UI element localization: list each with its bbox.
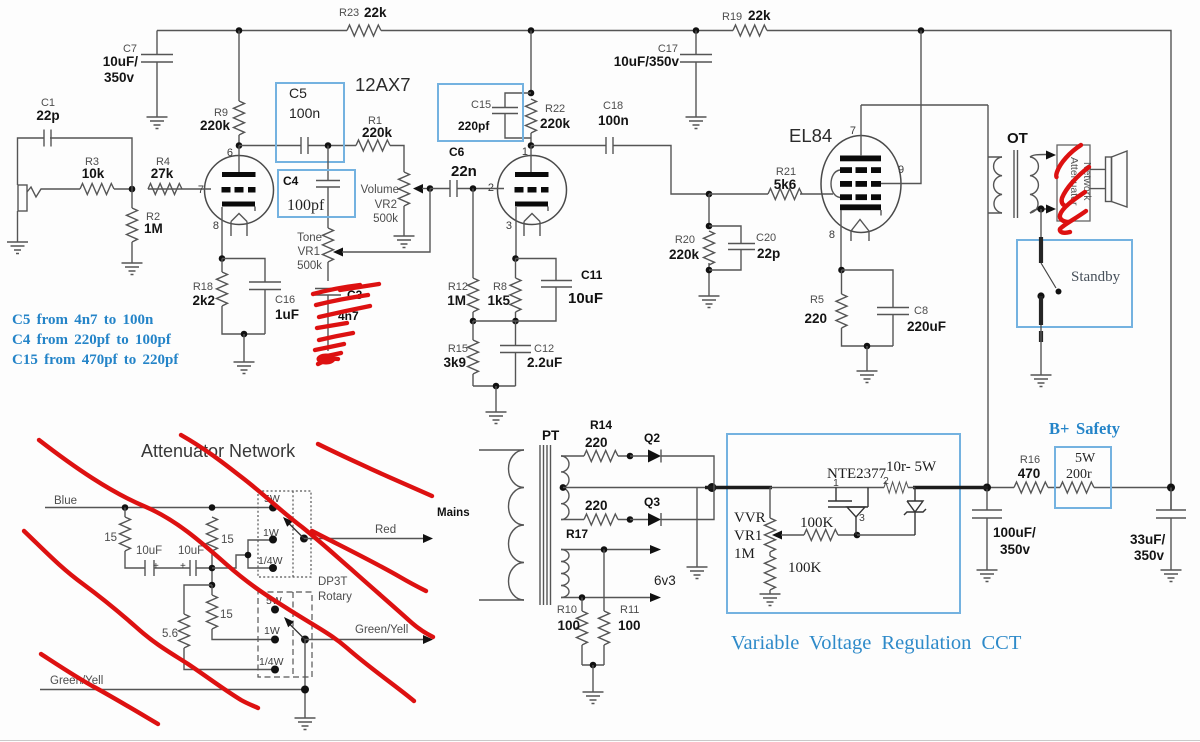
svg-text:33uF/: 33uF/ bbox=[1130, 532, 1166, 547]
svg-text:10uF/350v: 10uF/350v bbox=[614, 54, 680, 69]
svg-text:22n: 22n bbox=[451, 163, 477, 180]
svg-text:6: 6 bbox=[227, 147, 233, 159]
svg-text:R20: R20 bbox=[675, 234, 695, 246]
svg-text:1uF: 1uF bbox=[275, 307, 299, 322]
svg-text:9: 9 bbox=[898, 164, 904, 176]
svg-text:Volume: Volume bbox=[361, 184, 399, 196]
svg-text:2.2uF: 2.2uF bbox=[527, 355, 562, 370]
svg-text:3k9: 3k9 bbox=[443, 355, 466, 370]
svg-text:7: 7 bbox=[850, 125, 856, 137]
svg-text:VR1: VR1 bbox=[734, 528, 762, 544]
svg-text:3: 3 bbox=[506, 220, 512, 232]
svg-text:VR1: VR1 bbox=[298, 246, 320, 258]
svg-text:C4 from 220pf to 100pf: C4 from 220pf to 100pf bbox=[12, 332, 172, 348]
svg-text:5.6: 5.6 bbox=[162, 628, 178, 640]
svg-text:350v: 350v bbox=[1000, 542, 1031, 557]
svg-text:1/4W: 1/4W bbox=[259, 656, 284, 668]
svg-text:2k2: 2k2 bbox=[192, 293, 215, 308]
svg-text:R11: R11 bbox=[620, 604, 639, 616]
svg-text:Tone: Tone bbox=[297, 232, 322, 244]
svg-text:C18: C18 bbox=[603, 100, 623, 112]
svg-text:1: 1 bbox=[833, 477, 839, 489]
svg-text:200r: 200r bbox=[1066, 467, 1092, 482]
svg-text:220: 220 bbox=[585, 435, 608, 450]
svg-text:8: 8 bbox=[213, 220, 219, 232]
svg-text:220k: 220k bbox=[540, 116, 571, 131]
svg-text:C4: C4 bbox=[283, 174, 299, 188]
svg-text:R12: R12 bbox=[448, 281, 468, 293]
svg-text:10r- 5W: 10r- 5W bbox=[886, 459, 937, 475]
svg-text:22p: 22p bbox=[757, 246, 780, 261]
svg-text:10uF: 10uF bbox=[178, 545, 204, 557]
svg-text:DP3T: DP3T bbox=[318, 576, 347, 588]
svg-text:470: 470 bbox=[1018, 466, 1041, 481]
svg-text:220k: 220k bbox=[669, 247, 700, 262]
svg-text:C8: C8 bbox=[914, 305, 928, 317]
svg-text:500k: 500k bbox=[297, 260, 322, 272]
svg-text:C15: C15 bbox=[471, 99, 491, 111]
svg-text:R10: R10 bbox=[557, 604, 577, 616]
svg-text:350v: 350v bbox=[104, 70, 135, 85]
svg-text:15: 15 bbox=[221, 534, 234, 546]
svg-text:100pf: 100pf bbox=[287, 197, 325, 214]
svg-text:+: + bbox=[180, 561, 186, 572]
svg-text:100K: 100K bbox=[788, 560, 822, 576]
svg-text:R18: R18 bbox=[193, 281, 213, 293]
svg-text:5k6: 5k6 bbox=[774, 177, 797, 192]
svg-text:22p: 22p bbox=[36, 108, 59, 123]
svg-text:100uF/: 100uF/ bbox=[993, 525, 1036, 540]
svg-text:Rotary: Rotary bbox=[318, 591, 352, 603]
svg-text:B+ Safety: B+ Safety bbox=[1049, 419, 1121, 438]
svg-text:10uF: 10uF bbox=[568, 290, 603, 307]
svg-text:C5 from 4n7 to 100n: C5 from 4n7 to 100n bbox=[12, 312, 154, 328]
svg-text:100: 100 bbox=[618, 618, 641, 633]
svg-text:100n: 100n bbox=[289, 105, 320, 121]
svg-text:C6: C6 bbox=[449, 145, 465, 159]
svg-text:220uF: 220uF bbox=[907, 319, 946, 334]
svg-text:100K: 100K bbox=[800, 515, 834, 531]
svg-text:22k: 22k bbox=[748, 8, 771, 23]
svg-text:2: 2 bbox=[883, 475, 889, 487]
svg-text:8: 8 bbox=[829, 229, 835, 241]
svg-text:OT: OT bbox=[1007, 130, 1028, 147]
svg-text:C15 from 470pf to 220pf: C15 from 470pf to 220pf bbox=[12, 352, 179, 368]
svg-text:R17: R17 bbox=[566, 527, 588, 541]
svg-text:Q3: Q3 bbox=[644, 495, 660, 509]
svg-text:C12: C12 bbox=[534, 343, 554, 355]
svg-text:R23: R23 bbox=[339, 7, 359, 19]
svg-text:220: 220 bbox=[585, 498, 608, 513]
svg-text:12AX7: 12AX7 bbox=[355, 74, 411, 95]
svg-text:15: 15 bbox=[104, 532, 117, 544]
svg-text:100: 100 bbox=[557, 618, 580, 633]
svg-text:Green/Yell: Green/Yell bbox=[355, 624, 408, 636]
svg-text:Standby: Standby bbox=[1071, 269, 1121, 285]
svg-text:100n: 100n bbox=[598, 113, 629, 128]
svg-text:C11: C11 bbox=[581, 268, 603, 282]
svg-text:VR2: VR2 bbox=[375, 199, 397, 211]
svg-text:500k: 500k bbox=[373, 213, 398, 225]
svg-text:10k: 10k bbox=[82, 166, 105, 181]
svg-text:R8: R8 bbox=[493, 281, 507, 293]
svg-text:R22: R22 bbox=[545, 103, 565, 115]
svg-text:7: 7 bbox=[198, 184, 204, 196]
svg-text:VVR: VVR bbox=[734, 510, 766, 526]
svg-text:3: 3 bbox=[859, 512, 865, 524]
svg-text:R15: R15 bbox=[448, 343, 468, 355]
svg-text:1/4W: 1/4W bbox=[258, 555, 283, 567]
svg-text:220pf: 220pf bbox=[458, 119, 490, 133]
svg-text:1M: 1M bbox=[734, 546, 755, 562]
svg-text:27k: 27k bbox=[151, 166, 174, 181]
svg-text:C16: C16 bbox=[275, 294, 295, 306]
svg-text:22k: 22k bbox=[364, 5, 387, 20]
svg-text:15: 15 bbox=[220, 609, 233, 621]
svg-text:C5: C5 bbox=[289, 85, 307, 101]
svg-text:R19: R19 bbox=[722, 11, 742, 23]
svg-text:220k: 220k bbox=[362, 125, 393, 140]
svg-text:6v3: 6v3 bbox=[654, 573, 676, 588]
svg-text:5W: 5W bbox=[1075, 451, 1096, 466]
svg-text:+: + bbox=[153, 561, 159, 572]
svg-text:1W: 1W bbox=[264, 625, 280, 637]
svg-text:PT: PT bbox=[542, 428, 560, 443]
svg-text:1: 1 bbox=[522, 146, 528, 158]
svg-text:R14: R14 bbox=[590, 418, 612, 432]
svg-text:EL84: EL84 bbox=[789, 125, 832, 146]
svg-text:R16: R16 bbox=[1020, 454, 1040, 466]
svg-text:1k5: 1k5 bbox=[487, 293, 510, 308]
svg-text:1M: 1M bbox=[447, 293, 466, 308]
svg-text:220: 220 bbox=[804, 311, 827, 326]
svg-text:R5: R5 bbox=[810, 294, 824, 306]
svg-text:Q2: Q2 bbox=[644, 431, 660, 445]
svg-text:Red: Red bbox=[375, 524, 396, 536]
svg-text:350v: 350v bbox=[1134, 548, 1165, 563]
svg-text:C20: C20 bbox=[756, 232, 776, 244]
svg-text:Mains: Mains bbox=[437, 507, 470, 519]
svg-text:10uF: 10uF bbox=[136, 545, 162, 557]
svg-text:220k: 220k bbox=[200, 118, 231, 133]
svg-text:Blue: Blue bbox=[54, 495, 77, 507]
svg-text:1M: 1M bbox=[144, 221, 163, 236]
svg-text:10uF/: 10uF/ bbox=[103, 54, 139, 69]
svg-text:1W: 1W bbox=[263, 527, 279, 539]
svg-text:Variable Voltage Regulation CC: Variable Voltage Regulation CCT bbox=[731, 632, 1022, 654]
